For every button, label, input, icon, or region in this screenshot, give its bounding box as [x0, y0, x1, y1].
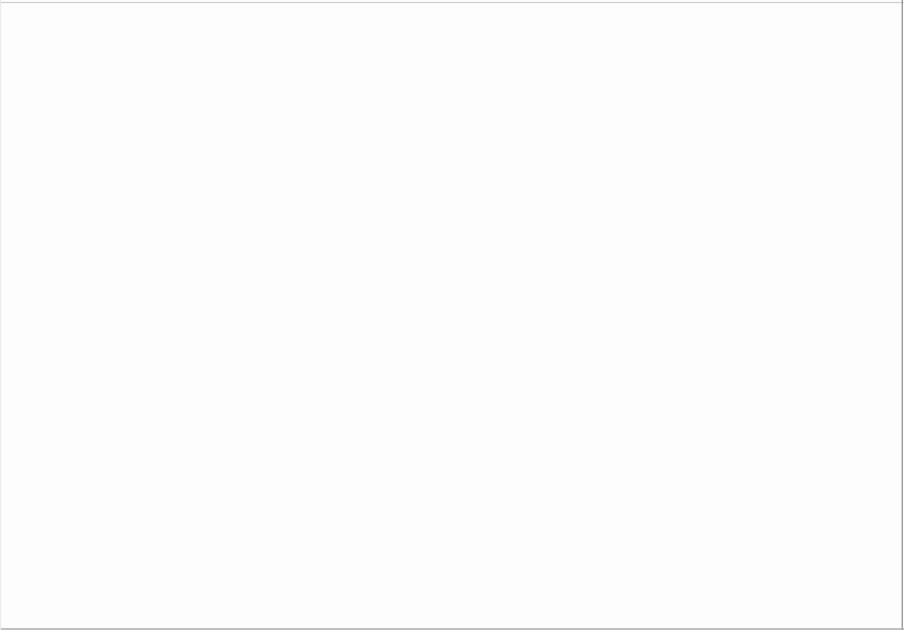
- screenshot edge artifacts: [0, 2, 904, 4]
